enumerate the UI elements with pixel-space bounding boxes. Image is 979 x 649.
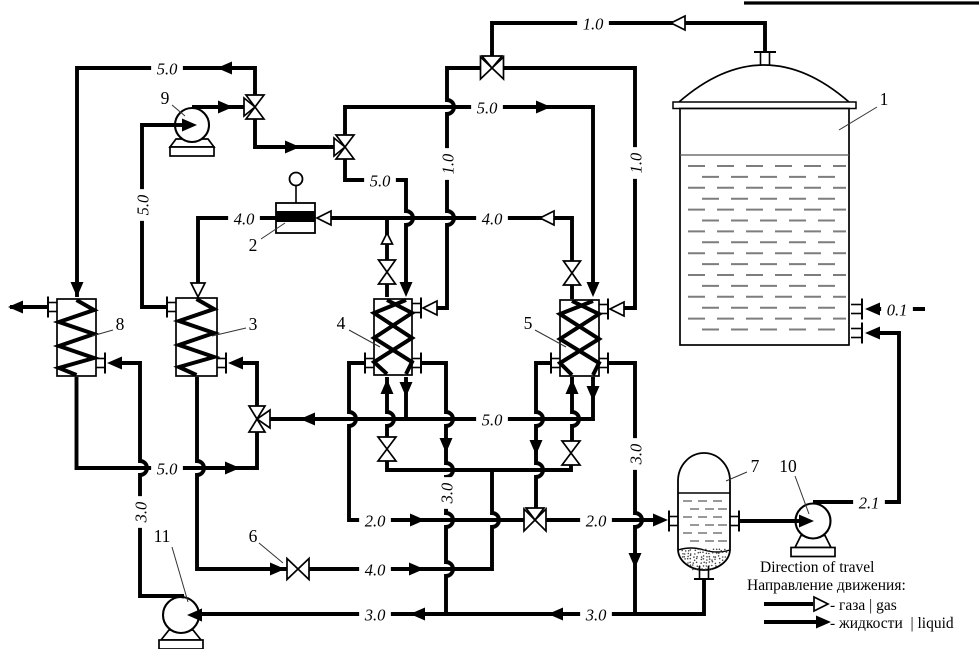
tank top nozzle [760, 52, 762, 66]
separator left nozzle [669, 516, 678, 518]
svg-text:1.0: 1.0 [627, 152, 646, 173]
valve 6 [287, 559, 298, 580]
liquid arrow on 2.0 line left [410, 514, 425, 527]
label 3.0 x446 [437, 477, 456, 509]
tank 1 [679, 65, 849, 102]
heat exchanger 5 coil [560, 301, 599, 375]
label 0.1 [881, 300, 913, 319]
svg-text:3.0: 3.0 [364, 606, 386, 625]
label 2.0 right [580, 511, 612, 530]
liquid arrow before valve6 [270, 563, 285, 576]
wire pump9 suction (5.0) [142, 125, 189, 307]
wire 4.0 gas line right part [331, 218, 572, 261]
liquid arrow on y468 line [225, 462, 240, 475]
HX8 bottom-right nozzle [96, 358, 105, 360]
gas arrow into HX4 right nozzle [423, 301, 437, 315]
liquid arrow into tank port A [865, 303, 880, 316]
pump 11 [161, 630, 201, 640]
liquid arrow into separator [653, 514, 668, 527]
label 5.0 y419 [476, 410, 508, 429]
leader 4 [349, 330, 380, 347]
HX4 bottom-left nozzle [365, 358, 374, 360]
wire HX8 outlet to valve V4 (5.0) [77, 377, 258, 468]
wire valve to HX4 gas inlet (1.0) [437, 68, 481, 308]
svg-text:3.0: 3.0 [132, 501, 151, 523]
label 4.0 right [476, 209, 508, 228]
wire HX5 top stub [570, 285, 574, 299]
liquid arrow HX5 br port [587, 386, 600, 401]
legend gas arrow [764, 602, 813, 606]
heat exchanger 8 coil [59, 300, 94, 375]
pump 10 [795, 536, 831, 548]
valve V8 below HX5 [562, 441, 580, 453]
pump 9 inlet arrow [175, 123, 185, 127]
HX3 top-left nozzle [167, 302, 176, 304]
HX4 right-top nozzle [412, 303, 421, 305]
svg-text:5: 5 [524, 313, 533, 333]
wire 3.0 return line [196, 579, 704, 614]
leader 2 [261, 223, 285, 239]
label 1.0 top line [577, 14, 609, 33]
liquid arrow pump9 discharge [218, 101, 233, 114]
wire separator to pump10 [739, 519, 806, 523]
svg-text:- газа | gas: - газа | gas [830, 597, 897, 614]
heat exchanger 5 box [560, 300, 599, 376]
wire distribution header y470 [387, 461, 571, 470]
wire 5.0 header to HX5 top [345, 107, 593, 292]
liquid arrow on 4.0 bottom line [409, 563, 424, 576]
filter 2 with indicator [276, 203, 315, 233]
valve V7 below HX4 [378, 437, 396, 449]
svg-text:11: 11 [154, 526, 171, 546]
gas arrow into HX3 top [191, 283, 205, 297]
wire pump10 discharge 2.1 [813, 333, 899, 502]
liquid arrow on y419 collector [300, 413, 315, 426]
svg-text:2.0: 2.0 [365, 512, 386, 531]
label 3.0 x635 [626, 438, 645, 470]
svg-text:8: 8 [116, 314, 125, 334]
svg-text:5.0: 5.0 [477, 99, 498, 118]
liquid arrow on 107 header [536, 101, 551, 114]
wire valve V1 to valve V2 [255, 119, 334, 147]
wire valve to HX5 gas inlet (1.0) [504, 68, 635, 308]
liquid arrow up into HX5 bottom [566, 379, 579, 394]
svg-text:2.0: 2.0 [586, 512, 607, 531]
svg-text:4.0: 4.0 [234, 210, 255, 229]
gas arrow up HX4 riser [382, 233, 393, 244]
title rule [744, 1, 979, 4]
svg-text:1.0: 1.0 [583, 15, 604, 34]
wire HX4 gas riser [385, 218, 389, 297]
pump 11 inlet arrow [196, 613, 199, 617]
wire 5.0 header to HX4 top [345, 159, 413, 292]
wire HX4 side drop x446 (3.0) [421, 363, 453, 613]
3-way valve V4 (HX3 inlet) [249, 406, 265, 419]
leader 10 [795, 476, 809, 514]
svg-text:2.1: 2.1 [859, 494, 880, 513]
separator right nozzle [730, 516, 739, 518]
svg-text:10: 10 [779, 456, 797, 476]
separator 7 [678, 453, 730, 570]
legend liquid arrow [764, 620, 816, 624]
HX5 right-top nozzle [599, 304, 608, 306]
wire 5.0 top-left header [77, 68, 255, 297]
liquid arrow HX8 outlet [8, 301, 23, 314]
wire 5.0 collector y419 [270, 377, 593, 419]
svg-text:Direction of travel: Direction of travel [760, 559, 874, 576]
wire HX3 outlet down to valve6 [197, 377, 287, 569]
label 5.0 suction vertical [133, 189, 152, 221]
3-way valve V10 (2.0 line) [524, 509, 535, 531]
heat exchanger 4 box [374, 299, 412, 375]
label 4.0 left [228, 209, 260, 228]
wire 1.0 gas line tank-top to valve [492, 23, 765, 56]
liquid arrow into pump10 [799, 515, 814, 528]
wire riser x492 [309, 470, 499, 569]
leader 9 [172, 105, 185, 116]
label 3.0 return left [359, 605, 391, 624]
label 5.0 y468 [151, 459, 183, 478]
label 2.0 left [359, 511, 391, 530]
valve on HX4 gas riser [379, 260, 396, 272]
leader 11 [172, 547, 188, 602]
gas arrow on 1.0 line [671, 16, 685, 30]
3-way valve V3 (1.0 splitter) [481, 57, 493, 79]
svg-text:6: 6 [249, 526, 258, 546]
svg-text:3.0: 3.0 [627, 443, 646, 465]
liquid arrow HX4 br port [400, 382, 413, 397]
liquid arrow into pump9 [182, 119, 197, 132]
pump 10 inlet arrow [796, 519, 801, 523]
leader 5 [535, 330, 566, 347]
wire riser V8 to HX5 bottom [572, 377, 579, 441]
wire pump11 riser to HX8 inlet (3.0) [121, 363, 184, 596]
wire HX5 side drop to valve V10 [536, 363, 551, 509]
svg-text:1.0: 1.0 [439, 153, 458, 174]
svg-text:3.0: 3.0 [585, 606, 607, 625]
wire pump9 discharge [192, 105, 244, 109]
wire 4.0 gas line left part [198, 218, 276, 292]
heat exchanger 4 coil [374, 300, 412, 374]
liquid arrow on x446 drop [440, 438, 453, 453]
label 2.1 [853, 493, 885, 512]
leader 3 [212, 328, 246, 336]
leader 7 [726, 472, 747, 481]
liquid arrow into HX8 br [107, 357, 122, 370]
svg-text:4: 4 [337, 313, 346, 333]
label 5.0 header180 [364, 171, 396, 190]
liquid arrow 3.0 return a [410, 608, 425, 621]
svg-text:1: 1 [880, 89, 889, 109]
pump 11 discharge stub [178, 596, 184, 597]
tank port B nozzle [851, 328, 862, 330]
liquid arrow 3.0 return b [548, 608, 563, 621]
gas arrow at filter outlet [317, 211, 331, 225]
wire valve V4 to HX3 inlet [242, 363, 257, 406]
HX5 bottom-right nozzle [599, 358, 608, 360]
label 3.0 return right [580, 605, 612, 624]
liquid arrow into HX4 top [400, 282, 413, 297]
label 5.0 header107 [471, 98, 503, 117]
svg-text:3.0: 3.0 [438, 482, 457, 504]
wire HX8 outlet [10, 305, 48, 309]
liquid arrow into HX3 br [228, 357, 243, 370]
HX5 bottom-left nozzle [551, 358, 560, 360]
HX3 bottom-right nozzle [217, 358, 226, 360]
wire 2.0 line to separator [546, 518, 661, 522]
HX4 bottom-right nozzle [412, 358, 421, 360]
wire HX4 br port [404, 377, 408, 419]
liquid arrow into HX5 top [587, 282, 600, 297]
liquid arrow up into HX4 bottom [381, 379, 394, 394]
wire HX5 side drop x635 (3.0) [608, 363, 642, 613]
svg-text:Направление движения:: Направление движения: [747, 577, 906, 594]
heat exchanger 3 box [176, 298, 217, 376]
label 4.0 bottom [359, 560, 391, 579]
label 1.0 right vertical [626, 147, 645, 179]
svg-text:5.0: 5.0 [134, 194, 153, 215]
heat exchanger 3 coil [179, 299, 214, 375]
liquid arrow on x536 drop [530, 440, 543, 455]
gas arrow on 4.0 line [540, 211, 554, 225]
wire HX4 bl nozzle to 2.0 line [349, 363, 524, 520]
svg-text:5.0: 5.0 [482, 411, 503, 430]
tank port A nozzle [851, 304, 862, 306]
3-way valve V2 [336, 135, 354, 147]
leader 8 [92, 330, 113, 336]
HX8 top-left nozzle [48, 302, 57, 304]
svg-text:- жидкости | liquid: - жидкости | liquid [830, 615, 954, 632]
svg-text:9: 9 [161, 88, 170, 108]
liquid arrow into tank port B [865, 327, 880, 340]
svg-text:5.0: 5.0 [157, 460, 178, 479]
gas arrow into HX5 right nozzle [610, 302, 624, 316]
liquid arrow on 5.0 header [217, 62, 232, 75]
label 5.0 top-left [151, 59, 183, 78]
label 3.0 pump11 riser [131, 496, 150, 528]
leader 1 [839, 107, 877, 130]
liquid arrow into pump11 [187, 609, 202, 622]
svg-text:4.0: 4.0 [365, 561, 386, 580]
3-way valve V1 (pump9 discharge) [246, 95, 264, 107]
svg-text:5.0: 5.0 [157, 60, 178, 79]
svg-text:2: 2 [249, 235, 258, 255]
svg-text:3: 3 [249, 314, 258, 334]
svg-text:0.1: 0.1 [887, 301, 908, 320]
valve on HX5 gas riser [564, 261, 581, 273]
svg-text:4.0: 4.0 [482, 210, 503, 229]
liquid arrow V1-V2 [285, 141, 300, 154]
pump 9 [170, 139, 214, 147]
wire riser V7 to HX4 bottom [387, 377, 394, 437]
liquid arrow on x635 drop [629, 553, 642, 568]
liquid arrow into HX8 top [71, 282, 84, 297]
leader 6 [259, 543, 283, 563]
wire 0.1 feed stub [874, 307, 925, 311]
heat exchanger 8 box [57, 299, 96, 376]
separator bottom nozzle [699, 566, 701, 579]
svg-text:5.0: 5.0 [370, 172, 391, 191]
label 1.0 left vertical [438, 148, 457, 180]
svg-text:7: 7 [751, 456, 760, 476]
